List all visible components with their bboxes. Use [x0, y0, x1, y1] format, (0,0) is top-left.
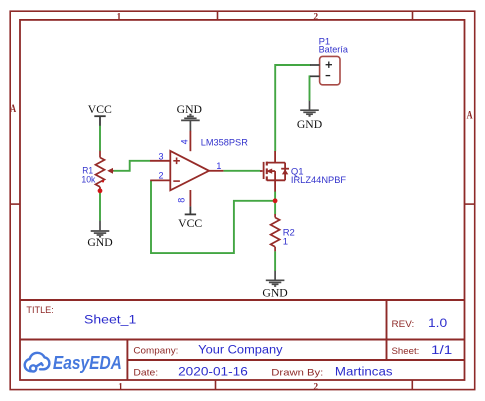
- svg-text:Company:: Company:: [133, 345, 178, 356]
- svg-text:1: 1: [216, 161, 221, 171]
- svg-text:Sheet_1: Sheet_1: [84, 315, 136, 327]
- svg-text:1: 1: [117, 12, 122, 22]
- svg-text:Date:: Date:: [133, 367, 158, 378]
- svg-text:3: 3: [158, 151, 163, 161]
- svg-text:2: 2: [313, 12, 318, 22]
- svg-text:10k: 10k: [81, 174, 95, 185]
- svg-text:Batería: Batería: [319, 45, 349, 56]
- svg-text:GND: GND: [87, 236, 112, 249]
- svg-text:GND: GND: [262, 286, 287, 299]
- svg-text:1: 1: [118, 382, 123, 392]
- svg-text:1: 1: [283, 237, 288, 248]
- svg-text:LM358PSR: LM358PSR: [201, 138, 248, 149]
- svg-text:A: A: [10, 101, 16, 115]
- svg-text:4: 4: [180, 139, 190, 144]
- svg-text:8: 8: [177, 198, 187, 203]
- svg-text:Sheet:: Sheet:: [392, 346, 420, 357]
- svg-text:TITLE:: TITLE:: [26, 305, 53, 316]
- svg-text:Martincas: Martincas: [335, 367, 393, 379]
- svg-text:VCC: VCC: [88, 103, 112, 116]
- svg-text:GND: GND: [177, 103, 202, 116]
- svg-text:2: 2: [158, 170, 163, 180]
- svg-text:GND: GND: [297, 118, 322, 131]
- svg-text:2020-01-16: 2020-01-16: [178, 367, 248, 379]
- svg-text:A: A: [467, 107, 473, 121]
- svg-text:IRLZ44NPBF: IRLZ44NPBF: [291, 175, 346, 186]
- svg-text:1.0: 1.0: [428, 318, 447, 330]
- svg-text:EasyEDA: EasyEDA: [53, 353, 122, 373]
- svg-text:Your Company: Your Company: [198, 344, 283, 356]
- svg-text:1/1: 1/1: [431, 345, 452, 357]
- svg-text:Drawn By:: Drawn By:: [271, 367, 323, 378]
- svg-text:VCC: VCC: [178, 217, 202, 230]
- svg-text:2: 2: [313, 382, 318, 392]
- svg-text:REV:: REV:: [392, 319, 415, 330]
